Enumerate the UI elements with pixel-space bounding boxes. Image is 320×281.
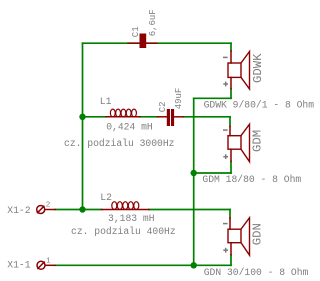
svg-text:L2: L2 bbox=[100, 192, 112, 203]
svg-text:cz. podzialu 400Hz: cz. podzialu 400Hz bbox=[71, 226, 176, 237]
svg-text:1: 1 bbox=[46, 257, 51, 265]
svg-text:cz. podzialu 3000Hz: cz. podzialu 3000Hz bbox=[64, 138, 175, 149]
svg-text:0,424 mH: 0,424 mH bbox=[106, 121, 153, 132]
svg-text:X1-2: X1-2 bbox=[7, 205, 30, 216]
svg-text:49uF: 49uF bbox=[174, 88, 184, 110]
svg-text:GDWK: GDWK bbox=[251, 53, 265, 83]
svg-text:X1-1: X1-1 bbox=[7, 259, 30, 270]
svg-text:GDN: GDN bbox=[251, 223, 265, 245]
svg-text:GDM 18/80 - 8 Ohm: GDM 18/80 - 8 Ohm bbox=[202, 174, 301, 185]
svg-text:GDWK 9/80/1 - 8 Ohm: GDWK 9/80/1 - 8 Ohm bbox=[204, 100, 315, 111]
svg-text:GDN 30/100 - 8 Ohm: GDN 30/100 - 8 Ohm bbox=[204, 267, 309, 278]
svg-text:C2: C2 bbox=[158, 101, 168, 112]
svg-text:3,183 mH: 3,183 mH bbox=[108, 213, 155, 224]
svg-text:6,6uF: 6,6uF bbox=[148, 9, 158, 36]
svg-text:2: 2 bbox=[46, 202, 51, 210]
svg-text:L1: L1 bbox=[100, 96, 112, 107]
svg-text:C1: C1 bbox=[131, 26, 141, 37]
svg-text:GDM: GDM bbox=[251, 130, 265, 152]
